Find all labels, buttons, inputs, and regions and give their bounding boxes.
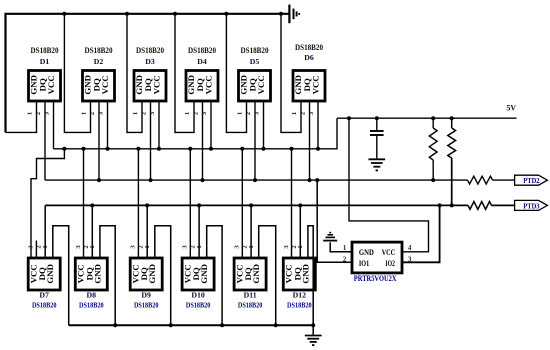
D8 pin2 DQ wire — [90, 203, 94, 258]
svg-text:1: 1 — [237, 112, 244, 115]
D12 pin3 VCC wire — [290, 147, 294, 258]
D5 pin2 DQ wire — [253, 101, 257, 182]
svg-text:1: 1 — [27, 112, 34, 115]
DS18B20 D8 — [75, 258, 107, 310]
DS18B20 D4 — [186, 46, 218, 101]
svg-text:PTD3: PTD3 — [523, 202, 540, 210]
D6 pin numbers — [291, 111, 315, 115]
port flag PTD2 — [515, 175, 548, 185]
D2 pin1 GND wire — [64, 14, 90, 133]
D8 pin3 VCC wire — [82, 147, 86, 258]
5V power rail — [337, 117, 517, 119]
D11 pin numbers — [234, 245, 255, 249]
DS18B20 D3 — [134, 46, 166, 101]
svg-text:D8: D8 — [87, 290, 97, 299]
wire: GND drop to D7 VCC jog — [31, 149, 64, 258]
DS18B20 D5 — [239, 46, 271, 101]
D8 pin numbers — [75, 245, 96, 249]
junctions on top GND bus — [62, 12, 283, 16]
D1 pin numbers — [27, 111, 51, 115]
svg-text:1: 1 — [81, 112, 88, 115]
wire: DQ bus top row (PTD2 net) — [45, 179, 468, 181]
D8 pin1 GND wire — [100, 226, 115, 325]
U1 pin3 IO2 wire — [402, 203, 442, 262]
D2 pin2 DQ wire — [97, 101, 101, 182]
svg-text:DS18B20: DS18B20 — [295, 43, 323, 52]
DS18B20 D10 — [182, 258, 214, 310]
ground (earth below C1) — [369, 159, 386, 170]
DS18B20 D6 — [293, 43, 325, 101]
D9 pin numbers — [130, 245, 151, 249]
svg-text:DS18B20: DS18B20 — [32, 301, 57, 310]
svg-text:D2: D2 — [94, 57, 104, 66]
svg-text:DS18B20: DS18B20 — [79, 301, 104, 310]
D7 pin2 DQ wire — [44, 205, 46, 258]
resistor R1 (pull-up PTD2) — [429, 118, 437, 182]
D6 pin1 GND wire — [281, 14, 301, 133]
D9 pin3 VCC wire — [136, 147, 140, 258]
svg-text:GND: GND — [300, 264, 310, 284]
D11 pin3 VCC wire — [240, 147, 244, 258]
svg-text:VCC: VCC — [204, 75, 214, 94]
svg-text:GND: GND — [92, 264, 102, 284]
svg-text:DS18B20: DS18B20 — [186, 301, 211, 310]
svg-text:4: 4 — [408, 244, 412, 252]
svg-text:D12: D12 — [293, 290, 307, 299]
svg-text:VCC: VCC — [256, 75, 266, 94]
D7 pin1 GND wire — [53, 226, 69, 325]
port flag PTD3 — [515, 200, 548, 210]
svg-text:IO1: IO1 — [359, 259, 369, 268]
DS18B20 D11 — [234, 258, 266, 310]
svg-text:1: 1 — [132, 112, 139, 115]
svg-text:D10: D10 — [191, 290, 205, 299]
DS18B20 D7 — [28, 258, 60, 310]
svg-text:D6: D6 — [304, 53, 314, 62]
svg-text:D1: D1 — [40, 57, 50, 66]
junction: GND-to-VCC tie at x64 — [62, 147, 66, 151]
D7 pin numbers — [28, 245, 49, 249]
D5 pin1 GND wire — [226, 14, 246, 133]
svg-text:1: 1 — [343, 244, 347, 252]
svg-text:DS18B20: DS18B20 — [136, 46, 164, 55]
D10 pin1 GND wire — [207, 226, 222, 325]
svg-text:DS18B20: DS18B20 — [31, 46, 59, 55]
ground (sideways earth, top right) — [289, 5, 299, 24]
svg-text:GND: GND — [45, 264, 55, 284]
D10 pin3 VCC wire — [188, 147, 192, 258]
svg-text:IO2: IO2 — [385, 259, 395, 268]
svg-text:1: 1 — [184, 112, 191, 115]
ground (inverted earth above U1 pin1) — [323, 233, 337, 241]
resistor R4 (series, PTD3) — [468, 202, 515, 210]
D6 pin3 VCC wire — [316, 101, 320, 151]
D3 pin1 GND wire — [127, 14, 142, 133]
D4 pin1 GND wire — [175, 14, 194, 133]
svg-text:VCC: VCC — [46, 75, 56, 94]
DS18B20 D2 — [83, 46, 115, 101]
D6 pin2 DQ wire — [308, 101, 312, 182]
svg-text:DS18B20: DS18B20 — [188, 46, 216, 55]
svg-text:GND: GND — [359, 248, 374, 257]
svg-text:D9: D9 — [141, 290, 151, 299]
DS18B20 D12 — [283, 258, 315, 310]
D4 pin2 DQ wire — [201, 101, 205, 182]
svg-text:DS18B20: DS18B20 — [85, 46, 113, 55]
svg-text:GND: GND — [147, 264, 157, 284]
svg-text:VCC: VCC — [311, 75, 321, 94]
D3 pin3 VCC wire — [157, 101, 161, 151]
svg-text:DS18B20: DS18B20 — [238, 301, 263, 310]
DS18B20 D9 — [130, 258, 162, 310]
svg-text:VCC: VCC — [382, 248, 395, 257]
U1 pin1 GND wire — [330, 242, 352, 252]
D10 pin numbers — [182, 245, 203, 249]
D11 pin2 DQ wire — [249, 203, 253, 258]
svg-text:5V: 5V — [507, 104, 517, 113]
svg-text:D7: D7 — [39, 290, 49, 299]
D1 pin3 VCC wire — [53, 101, 55, 149]
svg-text:GND: GND — [199, 264, 209, 284]
D3 pin numbers — [132, 111, 156, 115]
svg-text:D11: D11 — [244, 290, 257, 299]
svg-text:VCC: VCC — [100, 75, 110, 94]
D9 pin1 GND wire — [155, 226, 171, 325]
D12 pin2 DQ wire — [298, 203, 302, 258]
D2 pin3 VCC wire — [106, 101, 110, 151]
D4 pin3 VCC wire — [209, 101, 213, 151]
U1 pin2 IO1 wire — [315, 178, 352, 262]
U1 pin4 VCC wire — [349, 118, 429, 252]
ground (earth, bottom) — [305, 325, 322, 345]
svg-text:DS18B20: DS18B20 — [134, 301, 159, 310]
U1 inner pin names — [359, 248, 395, 268]
resistor R3 (series, PTD2) — [468, 176, 515, 184]
D4 pin numbers — [184, 111, 208, 115]
wire: bottom GND bus — [69, 324, 314, 326]
resistor R2 (pull-up PTD3) — [448, 118, 456, 207]
D3 pin2 DQ wire — [149, 101, 153, 182]
label 5V — [507, 104, 517, 113]
junctions on 5V rail — [347, 116, 454, 120]
svg-text:VCC: VCC — [152, 75, 162, 94]
junctions on bottom GND bus — [113, 323, 315, 327]
D12 pin numbers — [283, 245, 304, 249]
op-amp/ESD U1 PRTR5VOU2X box — [352, 242, 402, 273]
capacitor C1 — [370, 118, 384, 158]
wire: DQ bus bottom row (PTD3 net) — [45, 204, 468, 206]
svg-text:D4: D4 — [197, 57, 207, 66]
D1 pin1 GND wire — [6, 101, 37, 132]
svg-text:DS18B20: DS18B20 — [287, 301, 312, 310]
wire: top GND bus — [6, 14, 290, 133]
D2 pin numbers — [81, 111, 105, 115]
D10 pin2 DQ wire — [197, 203, 201, 258]
D5 pin numbers — [237, 111, 261, 115]
DS18B20 D1 — [29, 46, 61, 101]
D9 pin2 DQ wire — [145, 203, 149, 258]
svg-text:D5: D5 — [250, 57, 260, 66]
U1 pin numbers — [343, 244, 412, 264]
svg-text:PRTR5VOU2X: PRTR5VOU2X — [354, 274, 397, 283]
D12 pin1 GND wire — [308, 226, 313, 325]
D5 pin3 VCC wire — [262, 101, 266, 151]
D7 pin3 VCC stub — [35, 241, 37, 259]
D1 pin2 DQ wire — [44, 101, 46, 180]
svg-text:GND: GND — [251, 264, 261, 284]
D11 pin1 GND wire — [259, 226, 276, 325]
svg-text:DS18B20: DS18B20 — [241, 46, 269, 55]
U1 label PRTR5VOU2X — [354, 274, 397, 283]
svg-text:PTD2: PTD2 — [523, 177, 540, 185]
svg-text:D3: D3 — [145, 57, 155, 66]
wire: VCC bus (parasite supply rail) — [54, 118, 338, 149]
svg-text:1: 1 — [291, 112, 298, 115]
